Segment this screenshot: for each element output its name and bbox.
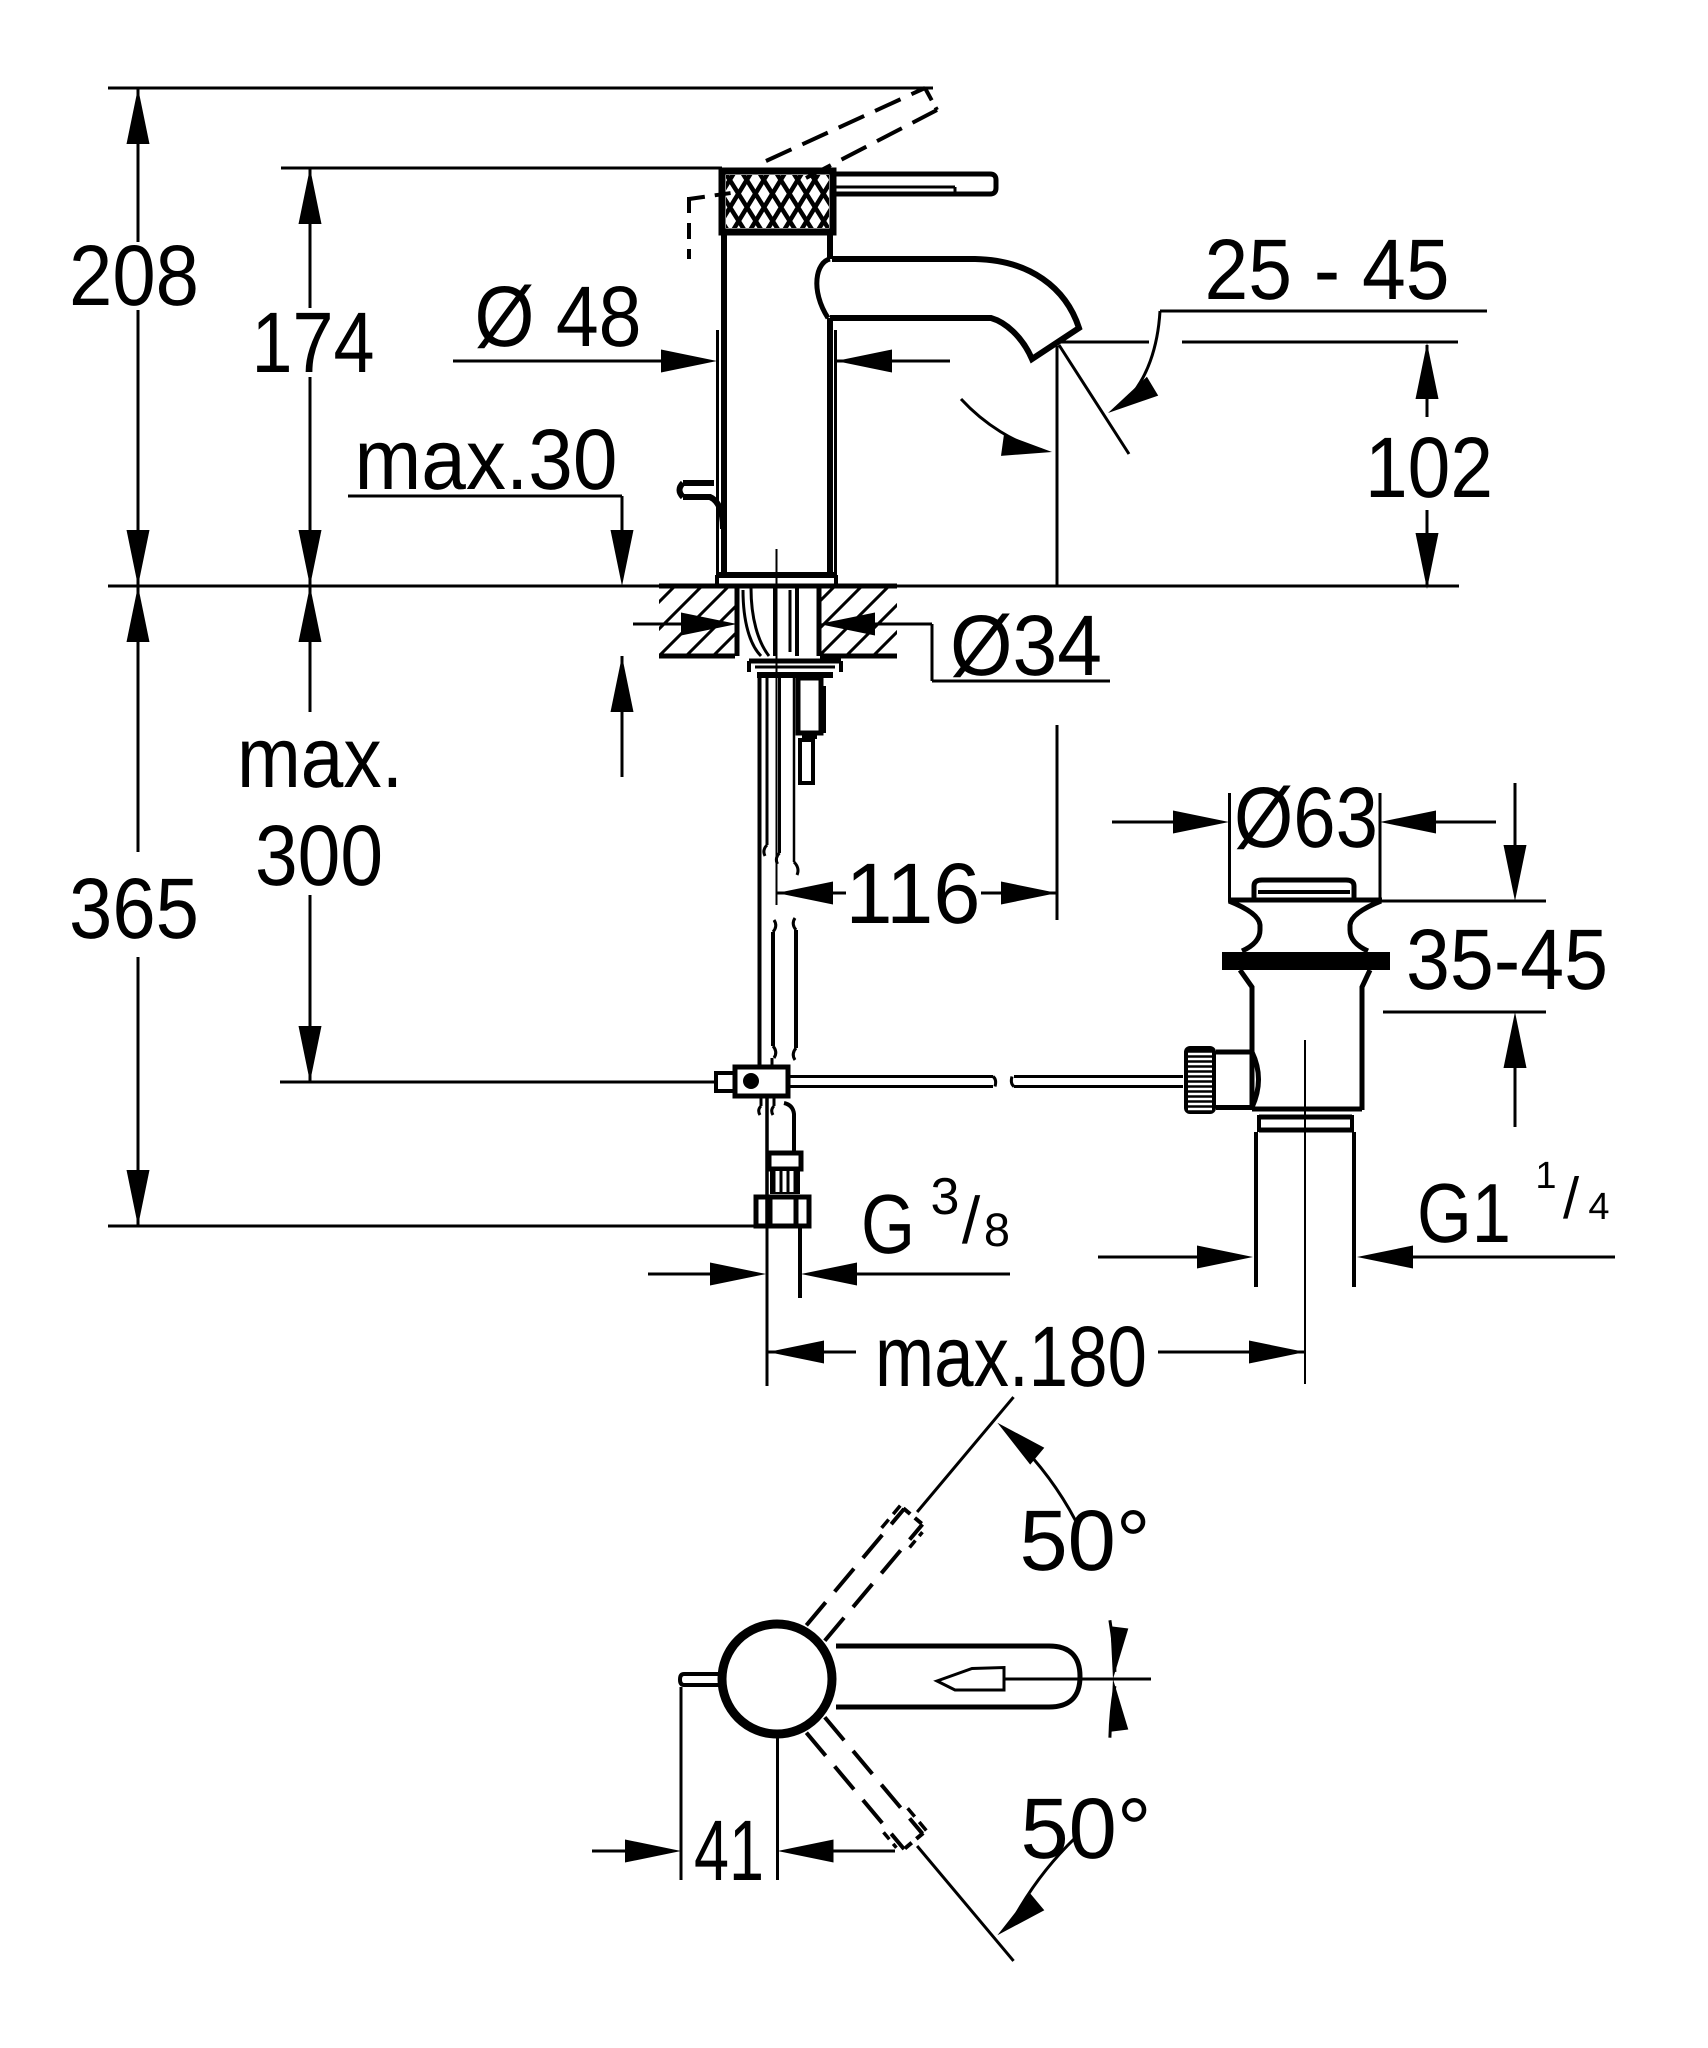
dimension Ø48 right arrow <box>836 350 950 373</box>
svg-text:/: / <box>1563 1166 1580 1231</box>
counter top line left <box>108 585 659 588</box>
reference line: pop-up rod level (max.300 bottom) <box>280 1081 716 1084</box>
pop-up vertical rod <box>758 677 762 1067</box>
dimension Ø34 left arrow <box>633 613 737 636</box>
dimension max.30 lower stem <box>621 656 624 777</box>
dimension Ø48 left arrow <box>453 350 717 373</box>
label 25 - 45 leader arc <box>1108 311 1160 413</box>
svg-text:116: 116 <box>846 846 981 942</box>
dimension Ø48 extension lines <box>718 330 836 586</box>
dimension G3/8 left arrow <box>648 1263 766 1286</box>
label 25 - 45 <box>1205 222 1450 318</box>
counter hatch right <box>738 586 1105 656</box>
angle 50 lower label <box>1021 1781 1152 1877</box>
svg-text:300: 300 <box>255 808 383 904</box>
tee clamp screw <box>743 1073 759 1089</box>
dimension 174 label <box>252 295 375 391</box>
svg-text:Ø63: Ø63 <box>1234 770 1378 866</box>
mounting hole right edge <box>817 586 822 656</box>
mounting nut <box>755 667 835 675</box>
drain union collar <box>1259 1115 1352 1132</box>
angle 50 lower arc seg2 <box>1110 1679 1128 1738</box>
svg-text:Ø 48: Ø 48 <box>475 269 642 365</box>
dimension 365 label <box>69 861 199 957</box>
dimension max.300 arrow down <box>299 1026 322 1082</box>
dimension Ø34 label <box>950 598 1102 694</box>
raised cap position (dashed) <box>689 193 731 259</box>
angle 50 lower arc seg1 <box>997 1838 1075 1936</box>
dimension 208 arrow down <box>127 530 150 586</box>
dimension 35-45 label <box>1406 912 1608 1008</box>
dimension 41 extension lines <box>681 1687 778 1880</box>
dimension max.300 vertical line <box>309 586 312 1082</box>
top view: pop-up rod <box>680 1674 721 1685</box>
dimension 116 left arrow <box>777 882 846 905</box>
drain funnel <box>1229 901 1381 951</box>
dimension 41 right arrow <box>778 1840 896 1863</box>
dimension max.180 right arrow <box>1158 1341 1305 1364</box>
faucet body outline <box>724 232 830 573</box>
dimension 41 label <box>694 1803 764 1899</box>
dimension 365 vertical line <box>137 586 140 1226</box>
drain center line <box>1304 1040 1306 1384</box>
svg-text:3: 3 <box>931 1168 960 1226</box>
svg-text:102: 102 <box>1365 420 1493 516</box>
dimension Ø63 right arrow <box>1380 811 1496 834</box>
faucet body base flange <box>717 575 836 586</box>
dimension max.180 label <box>875 1309 1147 1405</box>
top view: lever blade <box>937 1668 1004 1691</box>
dimension 102 vertical line <box>1426 345 1429 586</box>
counter top line right <box>897 585 1459 588</box>
drain seal ring <box>1222 952 1390 970</box>
dimension max.300 label <box>237 710 403 904</box>
dimension G1 1/4 right arrow <box>1357 1246 1615 1269</box>
dimension 365 arrow down <box>127 1170 150 1226</box>
top view: faucet body circle <box>722 1624 832 1734</box>
svg-text:4: 4 <box>1588 1186 1609 1228</box>
dimension max.30 label <box>355 412 618 508</box>
dimension Ø34 right arrow <box>819 613 932 636</box>
dimension 102 arrow up <box>1416 343 1439 399</box>
label G1 1/4 <box>1417 1155 1610 1260</box>
pop-up rod knob <box>680 483 724 529</box>
dimension max.180 left arrow <box>768 1341 856 1364</box>
svg-text:max.30: max.30 <box>355 412 618 508</box>
dimension G1 1/4 left arrow <box>1098 1246 1253 1269</box>
mounting hole left edge <box>735 586 740 656</box>
cartridge block lower <box>800 740 813 783</box>
top view: raised lever +50 (dashed) <box>806 1504 923 1641</box>
supply line inner <box>764 677 767 856</box>
faucet center line <box>776 549 778 905</box>
supply hose <box>772 918 796 1066</box>
swivel angle arrow <box>961 399 1052 456</box>
connector collar <box>769 1153 801 1169</box>
dimension 174 vertical line <box>309 168 312 586</box>
faucet shank in hole <box>743 588 797 656</box>
dimension 102 label <box>1365 420 1493 516</box>
counter hatch left <box>578 586 945 656</box>
svg-text:35-45: 35-45 <box>1406 912 1608 1008</box>
mounting washer <box>749 661 841 672</box>
dimension max.30 arrow up <box>611 656 634 712</box>
G3/8 hex nut <box>756 1197 809 1226</box>
connector knurl <box>770 1169 800 1194</box>
lever handle (side view) <box>833 174 996 194</box>
svg-text:25 - 45: 25 - 45 <box>1205 222 1450 318</box>
shank tube <box>794 677 798 875</box>
top view: +50 axis extension <box>917 1397 1013 1512</box>
svg-text:365: 365 <box>69 861 199 957</box>
svg-text:8: 8 <box>984 1203 1010 1256</box>
top view: center line <box>1004 1678 1151 1681</box>
cartridge block upper <box>798 678 824 733</box>
hose to connector <box>767 1096 794 1226</box>
dimension 116 label <box>846 846 981 942</box>
dimension max.30 arrow down <box>611 530 634 586</box>
dimension Ø48 label <box>475 269 642 365</box>
svg-text:G: G <box>861 1177 915 1271</box>
reference line: spout outlet level (102 top) <box>1058 341 1458 344</box>
drain adjuster knurl <box>1184 1046 1216 1114</box>
raised lever (dashed) <box>766 88 937 178</box>
label 25 - 45 underline <box>1160 310 1487 313</box>
dimension 35-45 upper arrow <box>1504 783 1527 901</box>
svg-text:max.: max. <box>237 710 403 806</box>
top view: lowered lever -50 (dashed) <box>806 1717 927 1850</box>
rod lower stub <box>759 1096 774 1115</box>
top view: -50 axis extension <box>917 1846 1013 1961</box>
spout outlet extension line <box>1056 346 1059 920</box>
label G3/8 <box>861 1168 1010 1271</box>
handle cap (hatched) <box>680 155 893 250</box>
dimension Ø63 label <box>1234 770 1378 866</box>
svg-text:Ø34: Ø34 <box>950 598 1102 694</box>
cartridge coupling <box>802 733 817 737</box>
drain adjuster stem <box>1216 1052 1259 1108</box>
spout outline <box>817 259 1079 359</box>
counter slab outline <box>659 586 897 656</box>
dimension Ø63 extension lines <box>1230 793 1381 898</box>
dimension Ø63 left arrow <box>1112 811 1229 834</box>
water stream line <box>1059 345 1129 454</box>
dimension max.300 arrow up <box>299 586 322 642</box>
svg-text:1: 1 <box>1535 1155 1556 1197</box>
drain tailpipe <box>1256 1132 1354 1287</box>
drain plug <box>1254 880 1354 898</box>
dimension max.180 extension line <box>766 1226 769 1386</box>
svg-text:174: 174 <box>252 295 375 391</box>
dimension Ø34 leader <box>932 624 1110 681</box>
dimension 208 label <box>69 228 199 324</box>
dimension G3/8 right arrow <box>801 1263 1010 1286</box>
drain valve body <box>1240 970 1370 1110</box>
dimension 41 left arrow <box>592 1840 681 1863</box>
svg-text:50°: 50° <box>1020 1493 1151 1589</box>
svg-text:/: / <box>962 1183 981 1257</box>
dimension max.30 leader underline <box>348 496 622 540</box>
dimension 174 arrow up <box>299 168 322 224</box>
dimension 365 arrow up <box>127 586 150 642</box>
horizontal pop-up linkage rod <box>788 1077 1183 1087</box>
angle 50 upper arc seg2 <box>1110 1620 1128 1679</box>
svg-text:41: 41 <box>694 1803 764 1899</box>
dimension 174 arrow down <box>299 530 322 586</box>
supply pipe end <box>798 1226 802 1298</box>
dimension 208 arrow up <box>127 88 150 144</box>
svg-text:50°: 50° <box>1021 1781 1152 1877</box>
reference line: top of cap (174 top) <box>281 167 722 170</box>
dimension 116 right arrow <box>981 882 1057 905</box>
svg-text:208: 208 <box>69 228 199 324</box>
reference line 35-45 top <box>1382 900 1546 903</box>
reference line: bottom of supply pipe (365 bottom) <box>108 1225 757 1228</box>
svg-text:G1: G1 <box>1417 1166 1511 1260</box>
dimension 102 arrow down <box>1416 533 1439 589</box>
pop-up rod tee clamp <box>716 1067 788 1096</box>
supply line inner2 <box>776 677 779 864</box>
svg-text:max.180: max.180 <box>875 1309 1147 1405</box>
dimension 208 vertical line <box>137 88 140 586</box>
drain funnel rim <box>1228 898 1382 903</box>
drain body bottom <box>1252 1107 1362 1112</box>
reference line 35-45 bottom <box>1383 1011 1546 1014</box>
reference line: top of raised lever (208 top) <box>108 87 933 90</box>
dimension 35-45 lower arrow <box>1504 1012 1527 1127</box>
angle 50 upper arc seg1 <box>997 1423 1075 1521</box>
top view: lever <box>836 1646 1080 1707</box>
angle 50 upper label <box>1020 1493 1151 1589</box>
